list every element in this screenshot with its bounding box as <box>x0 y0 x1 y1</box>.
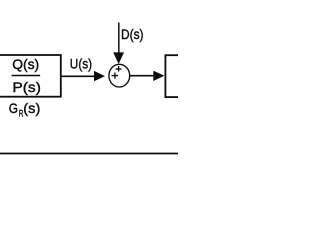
controller block G_R <box>0 55 61 97</box>
arrowhead into summing junction (left) <box>94 71 105 81</box>
svg-text:U(s): U(s) <box>70 55 92 71</box>
svg-text:(s): (s) <box>23 100 40 116</box>
wire D(s) disturbance drop <box>118 23 120 54</box>
fraction bar <box>12 75 40 77</box>
svg-text:D(s): D(s) <box>121 26 144 42</box>
label G_R(s) <box>9 100 41 119</box>
wire from summing junction to plant block <box>130 75 154 77</box>
figure caption rule <box>0 153 178 155</box>
plus sign (left input) <box>112 73 119 79</box>
summing junction circle <box>109 64 130 87</box>
svg-text:Q(s): Q(s) <box>12 56 39 72</box>
arrowhead into plant block <box>153 71 164 81</box>
plus sign (top input) <box>116 66 122 72</box>
plant block (cut off at right edge) <box>165 55 190 97</box>
svg-text:G: G <box>9 100 18 116</box>
wire U(s) from controller to summing junction <box>61 75 95 77</box>
svg-text:P(s): P(s) <box>12 79 40 95</box>
arrowhead into summing junction (top) <box>113 52 124 64</box>
